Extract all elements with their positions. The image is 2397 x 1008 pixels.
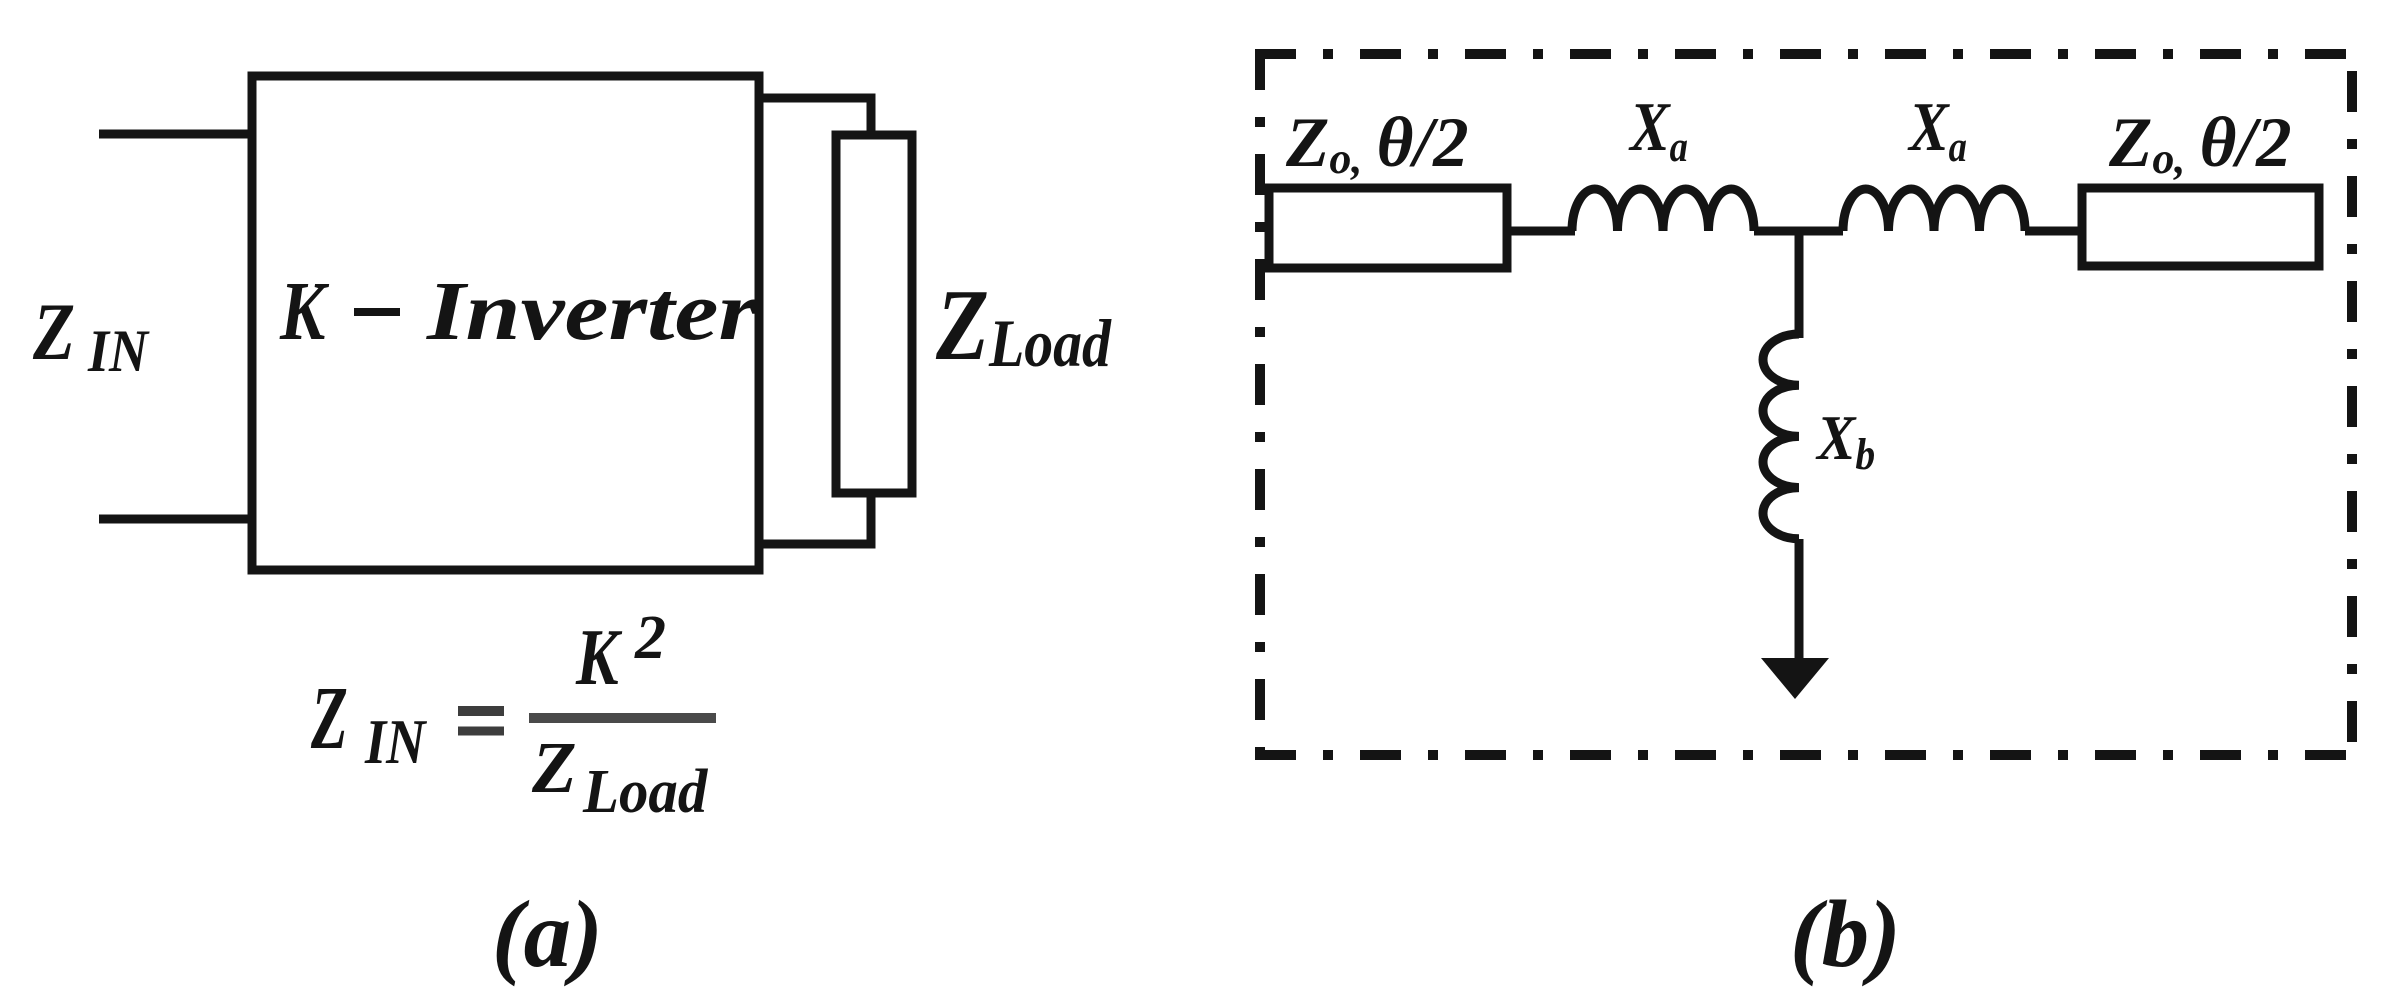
equation Z_IN = K^2 / Z_Load xyxy=(310,604,716,826)
svg-text:Zo, θ/2: Zo, θ/2 xyxy=(2108,104,2292,183)
inductor Xa left xyxy=(1572,189,1754,231)
svg-text:(a): (a) xyxy=(492,881,603,987)
svg-text:K: K xyxy=(279,264,330,357)
svg-text:Z: Z xyxy=(531,727,577,808)
wire inductor Xa right to TL2 xyxy=(2025,227,2086,236)
wire bottom output to load xyxy=(759,490,871,544)
wire junction down to inductor Xb xyxy=(1795,231,1804,338)
enclosure dash-dot border right xyxy=(2347,71,2357,760)
wire inductor Xa left to junction to inductor Xa right xyxy=(1754,227,1843,236)
transmission line TL1 Z_o theta/2 left xyxy=(1269,188,1507,268)
svg-text:(b): (b) xyxy=(1790,881,1901,987)
inductor Xb xyxy=(1763,334,1799,539)
inductor Xa right xyxy=(1843,189,2025,231)
enclosure dash-dot border top xyxy=(1255,49,2352,59)
svg-text:IN: IN xyxy=(87,318,150,384)
svg-text:Z: Z xyxy=(32,288,75,378)
svg-text:Xb: Xb xyxy=(1815,403,1875,479)
svg-text:Zo, θ/2: Zo, θ/2 xyxy=(1285,104,1469,183)
wire top output to load xyxy=(759,98,871,139)
wire bottom input of K-inverter xyxy=(99,515,252,524)
wire inductor Xb to ground arrow xyxy=(1795,539,1804,662)
svg-text:2: 2 xyxy=(634,604,666,672)
enclosure dash-dot border left xyxy=(1255,49,1265,755)
wire TL1 to inductor Xa left xyxy=(1507,227,1575,236)
K-inverter block U1 xyxy=(252,76,759,570)
transmission line TL2 Z_o theta/2 right xyxy=(2082,188,2319,266)
svg-text:Inverter: Inverter xyxy=(426,265,759,358)
load impedance Z_Load xyxy=(836,135,912,493)
svg-text:ZLoad: ZLoad xyxy=(935,270,1112,382)
K-inverter label xyxy=(279,264,758,358)
svg-text:Xa: Xa xyxy=(1907,89,1967,171)
svg-text:IN: IN xyxy=(364,706,427,777)
svg-text:K: K xyxy=(575,612,623,701)
svg-text:Xa: Xa xyxy=(1628,89,1688,171)
svg-text:Load: Load xyxy=(582,758,708,827)
svg-text:Z: Z xyxy=(310,668,348,768)
enclosure dash-dot border bottom xyxy=(1255,750,2352,760)
ground arrow xyxy=(1761,658,1829,699)
wire top input of K-inverter xyxy=(99,130,252,139)
